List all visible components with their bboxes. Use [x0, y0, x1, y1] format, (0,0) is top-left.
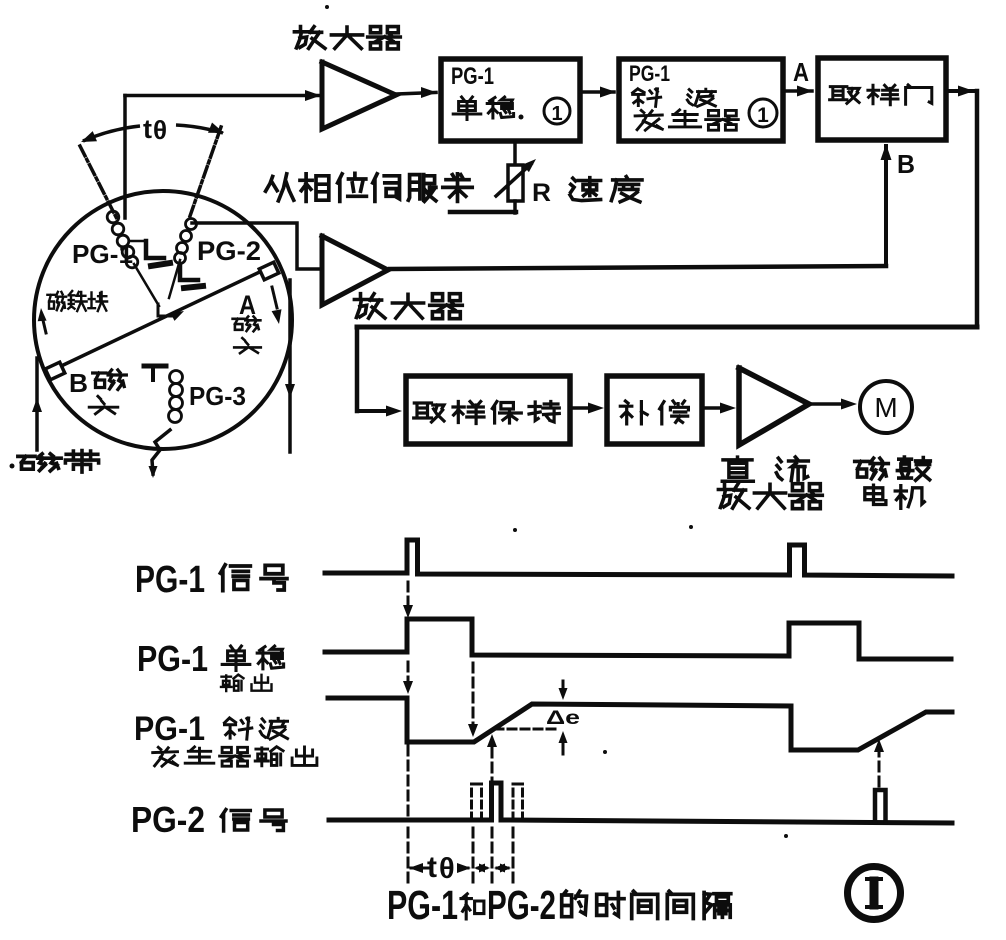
svg-text:PG-1: PG-1: [629, 61, 670, 86]
svg-text:Δe: Δe: [546, 707, 580, 729]
svg-text:1: 1: [551, 103, 562, 125]
svg-text:PG-1: PG-1: [451, 63, 494, 90]
svg-text:PG-3: PG-3: [189, 381, 246, 411]
svg-text:θ: θ: [439, 853, 455, 885]
svg-text:PG-1: PG-1: [72, 239, 133, 269]
svg-text:PG-1: PG-1: [134, 710, 205, 748]
svg-text:t: t: [427, 851, 437, 884]
svg-text:R: R: [532, 179, 551, 207]
svg-text:PG-1: PG-1: [387, 882, 458, 928]
svg-text:θ: θ: [153, 115, 167, 145]
svg-text:PG-1: PG-1: [135, 559, 205, 601]
svg-text:t: t: [143, 114, 152, 144]
svg-text:B: B: [897, 149, 915, 179]
svg-text:PG-1: PG-1: [137, 638, 208, 679]
svg-text:1: 1: [757, 104, 769, 127]
svg-text:A: A: [793, 57, 809, 87]
svg-text:PG-2: PG-2: [197, 236, 261, 266]
svg-text:PG-2: PG-2: [487, 882, 556, 928]
svg-text:B: B: [69, 368, 88, 398]
svg-text:PG-2: PG-2: [131, 799, 205, 840]
svg-text:M: M: [874, 392, 897, 423]
